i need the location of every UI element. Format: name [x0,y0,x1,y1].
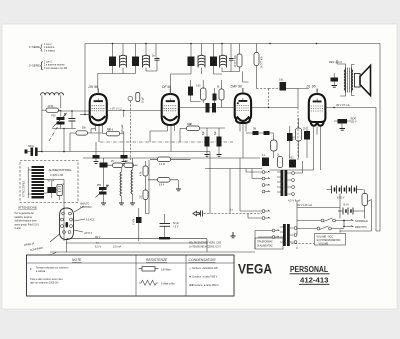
mid AF resistor R19 [158,157,171,162]
capacitor C17b dark [264,131,270,135]
svg-text:a valvola: a valvola [36,271,46,273]
capacitor C osc padder (dark) [109,57,116,67]
capacitor C21 dark [304,131,310,140]
svg-text:P50: P50 [52,116,57,118]
svg-text:67,5 V: 67,5 V [337,196,345,200]
wire y168 [205,168,262,170]
svg-text:LA TENSIONE ACCENS. 6,3 V: LA TENSIONE ACCENS. 6,3 V [189,246,221,249]
IF transformer T2 drops [191,44,257,58]
resistor R10 vertical outline [201,88,207,100]
svg-text:60 mA: 60 mA [48,180,55,183]
svg-text:10 M: 10 M [48,104,54,108]
svg-text:45 V 125 mA: 45 V 125 mA [297,203,312,207]
svg-text:RIDOTTO: RIDOTTO [355,225,367,229]
svg-text:VEGA: VEGA [238,262,272,277]
svg-text:6,8 k: 6,8 k [159,185,165,187]
svg-text:2 antenna: 2 antenna [44,46,55,49]
wire antenna sides [42,95,61,151]
T2 right contacts [292,172,295,196]
svg-text:RESISTENZE: RESISTENZE [146,258,168,262]
wire trimmer bottom [52,125,76,152]
coil L3 oscillator [120,55,127,67]
svg-text:7,5 V: 7,5 V [173,227,179,229]
svg-text:DI ALIMENTAZ.: DI ALIMENTAZ. [257,245,274,248]
grid return line [179,128,181,142]
dashed volume line [297,108,299,161]
svg-text:NEL RICEVITORE VERS. C/60: NEL RICEVITORE VERS. C/60 [189,243,222,245]
oscillator trimmer CV2 [96,185,109,198]
earphone jack J2 [193,211,262,217]
resistor R21 [158,178,171,183]
svg-text:412-413: 412-413 [300,276,329,285]
svg-text:1 con 2: 1 con 2 [44,44,52,46]
capacitor C8 dark [121,155,128,159]
AVC line dash-dot [100,141,233,143]
svg-text:3 a massa: 3 a massa [44,50,55,52]
svg-text:C 47k: C 47k [134,218,136,225]
capacitor C12 small [229,59,234,61]
svg-text:NORMALE: NORMALE [355,219,368,223]
riser wires right of jack [207,152,230,253]
capacitor C13 vertical small [136,93,140,102]
wires lower right [340,108,380,233]
tube DL96 [309,89,326,171]
svg-text:6,3 V: 6,3 V [95,244,101,248]
svg-text:R.OTT 47k: R.OTT 47k [262,55,264,67]
svg-text:PERSONAL: PERSONAL [290,265,328,274]
alimentatore dashed box [20,161,78,203]
T4 right contacts [294,227,297,244]
antenna coil L1 [41,93,64,96]
svg-text:VOLUME - ACC.: VOLUME - ACC. [317,236,334,239]
resistor R15 psu outline [57,184,62,195]
svg-text:NOTE: NOTE [72,258,82,262]
svg-text:ALIMENTATORE: ALIMENTATORE [49,168,72,172]
svg-text:8µF: 8µF [203,130,205,135]
svg-text:150 V: 150 V [351,122,357,124]
switch SW1 normale/ridotto [317,218,335,230]
svg-text:0,02: 0,02 [289,158,294,160]
speaker LS1 [355,66,371,96]
IF transformer T1 primary drops [113,44,157,58]
wire DAF cathode [240,128,246,159]
svg-text:REAT: REAT [351,118,358,121]
capacitor C20 (dark) with ground [331,78,339,82]
svg-text:dell'alimentatore deve: dell'alimentatore deve [15,220,38,223]
wire DF to DAF signal [179,107,235,109]
ground [340,129,346,131]
resistor symbol 1/8W [142,267,155,272]
socket annotation lines [50,206,85,242]
wire IFT2 bottoms [191,63,257,88]
svg-text:90 V: 90 V [95,235,101,239]
capacitor C15 electrolytic (dark pair) [206,103,210,113]
ground pair [94,162,127,164]
gang dashed link [49,126,58,141]
battery BT1 stack [28,166,44,199]
VOLUME box [315,234,346,246]
oscillator coil L8 [131,170,133,194]
resistor R1 10M [46,108,59,112]
ground thick bar [159,237,170,239]
wire DL screen to bus [325,107,376,109]
capacitor C6 small [155,59,160,61]
battery B2 9V [338,208,359,215]
T2 output transformer group: left contacts [262,171,269,193]
resistor R25 outline [278,157,283,168]
tube DF96 [162,89,179,132]
svg-text:+B 67,5: +B 67,5 [84,233,93,235]
wires to transformer [337,60,355,96]
svg-text:1 M: 1 M [187,124,191,126]
resistor R11 vertical outline [219,89,224,100]
TRASFORMATORE box [255,238,283,249]
capacitor C14 dark above DAF [188,87,193,96]
svg-text:ATTENZIONE: ATTENZIONE [18,206,37,210]
wire DK cathode drops [88,129,103,142]
coil L6 IF2 secondary [220,55,227,67]
capacitor C26 dark [289,160,296,168]
T4 core windings dark [280,224,294,246]
table header separator [27,262,235,264]
bus bottom [50,251,255,253]
wire 45V 125mA [297,207,340,209]
svg-text:2 a antenna esterna: 2 a antenna esterna [44,64,65,67]
table column separators [136,255,186,296]
svg-text:2ª SERIE: 2ª SERIE [29,64,40,68]
svg-text:30 pF: 30 pF [143,97,145,103]
ground [332,86,338,88]
svg-text:1ª SERIE: 1ª SERIE [29,45,40,49]
svg-text:Tensioni misurate con voltm: Tensioni misurate con voltmetro [36,267,69,270]
svg-text:Tutte le altre tensioni sono m: Tutte le altre tensioni sono misu- [30,278,63,281]
svg-text:REV. 2x1,5: REV. 2x1,5 [329,60,342,64]
ground mid [231,232,236,238]
svg-text:1 CATODO: 1 CATODO [80,206,92,209]
resistor R12 vertical outline [271,140,278,151]
resistor R20 vertical [143,166,148,176]
svg-text:VOLUME: VOLUME [319,243,329,245]
svg-text:SMALTO: SMALTO [80,203,89,206]
socket bottom wires [67,239,208,252]
capacitor C2 fixed [69,119,76,122]
svg-text:P50: P50 [97,185,102,187]
svg-text:3 con massa o con FB: 3 con massa o con FB [44,68,67,70]
table outer border [27,255,235,296]
tube DAF96 [235,88,251,130]
speaker output transformer T3 [344,68,353,93]
svg-text:(9 V): (9 V) [343,203,349,207]
capacitor C10 (dark) [188,57,195,67]
wire DAF96 bias components row [205,137,210,147]
resistor R7 vertical [237,54,242,67]
dash link volume box [284,244,314,250]
capacitor C16 dark small [213,94,217,101]
tube socket SK1 (bottom view) [60,208,74,240]
svg-text:0,01: 0,01 [279,80,284,82]
schematic frame top bus (HT+ line) [85,43,380,45]
svg-text:ATTACCO PILE: ATTACCO PILE [23,180,26,197]
wires switch [297,221,344,229]
svg-text:CONDENSATORI: CONDENSATORI [189,258,216,262]
resistor R22 vertical [143,190,148,200]
resistor R13 vertical outline [296,128,302,141]
T4 transformer group 2: left contacts [262,210,279,239]
svg-text:a.t.: a.t. [96,241,100,244]
capacitor C17a dark [253,131,259,135]
arrows to labels [345,219,353,226]
T2 core windings dark [277,170,291,196]
capacitor C19 dark [287,133,293,141]
wire DK left grid [80,114,90,116]
svg-text:Per la garanzia del: Per la garanzia del [15,212,35,215]
wires battery area [338,194,365,219]
svg-text:2M: 2M [253,129,256,131]
resistor R18 dark [136,217,142,223]
resistor symbol 5W zigzag [139,280,158,285]
svg-text:radiofilo, la spina: radiofilo, la spina [15,216,33,219]
resistor R8 vertical [254,53,259,66]
potentiometer VR1 [362,194,368,206]
svg-text:1/8 Watt: 1/8 Watt [161,268,171,272]
ground row osc [101,203,135,205]
svg-text:1 con 3: 1 con 3 [44,62,52,64]
svg-text:50 µF: 50 µF [173,223,180,225]
capacitor C11 (dark) [210,57,217,67]
capacitor C7 dark [93,155,100,159]
wires switch group 2 [240,158,272,249]
coil L4 [143,55,150,67]
capacitor C5 (dark) [132,57,139,67]
svg-text:△ Condens. elettrolitico 125: △ Condens. elettrolitico 125 [189,267,218,270]
capacitor C23 dark [100,163,108,168]
resistor R14 REAT (dark) [338,119,348,124]
svg-text:SU POTENZIOMETRO: SU POTENZIOMETRO [317,240,341,242]
svg-text:TRASFORMAT.: TRASFORMAT. [257,241,273,244]
trimmer capacitor CV1 [52,114,67,128]
wire left frame drop [84,44,86,115]
capacitor C24 electrolytic [160,224,171,227]
svg-text:4,5 V 8mA: 4,5 V 8mA [288,199,300,203]
svg-text:+ 87 V 1,2: + 87 V 1,2 [110,107,122,111]
value labels sprinkle [82,80,306,245]
svg-text:in alto: in alto [15,227,22,230]
capacitor C18 coupling (dark) [280,82,287,91]
wire DAF to DL grid [251,89,309,108]
resistor R16 [113,163,123,168]
svg-text:C 625 C 60: C 625 C 60 [50,173,64,177]
battery B1 67.5V cells [327,186,364,194]
tube DK96 [90,89,107,132]
svg-text:R.OTT 47k: R.OTT 47k [235,54,237,66]
svg-text:6,3 ACC.: 6,3 ACC. [86,219,96,222]
wires T2 to DL96 [246,161,320,179]
svg-text:rate con voltmetro 1000 Ω/: rate con voltmetro 1000 Ω/V [30,282,59,285]
wire grid row [59,110,90,112]
svg-text:avere guida. Pila 67,5 V: avere guida. Pila 67,5 V [15,223,40,226]
svg-text:DL 96: DL 96 [307,85,316,89]
svg-text:8µF: 8µF [215,130,217,135]
resistor R24 [187,126,200,131]
svg-text:NFA: NFA [28,144,34,148]
node dots on top bus [112,43,318,45]
svg-text:DAF 96: DAF 96 [231,85,243,89]
wire DF cathode drops [150,129,175,152]
schematic frame right border [379,44,381,232]
resistor R2 [76,131,88,135]
svg-text:b.t.: b.t. [230,209,234,212]
resistor R17 [124,163,134,168]
resistor R9 right of DK [123,111,125,118]
svg-text:DF 96: DF 96 [162,85,171,89]
test point TP1 [128,96,133,101]
svg-text:0,05: 0,05 [196,86,201,88]
svg-text:DK 96: DK 96 [89,85,99,89]
coil L5 IF2 primary [198,55,205,67]
ground arrow [176,189,181,191]
psu wires [44,180,64,242]
svg-text:2,2 M: 2,2 M [159,164,165,166]
resistor R3 [107,131,120,136]
wire IFT1 bottom links [113,63,158,73]
svg-text:{: { [40,60,43,70]
wire DK to DF grid [107,110,162,112]
bus second [83,157,260,159]
oscillator coil L7 [120,172,122,196]
svg-text:5 Watt a filo: 5 Watt a filo [161,282,175,286]
svg-text:2,5 mA: 2,5 mA [113,244,121,248]
svg-text:45 V 37 mA: 45 V 37 mA [336,103,350,107]
capacitor C22 psu dark [47,187,56,193]
capacitor C25 dark [262,158,269,167]
main bus wire [38,151,210,153]
bus 6.3V [67,242,208,244]
